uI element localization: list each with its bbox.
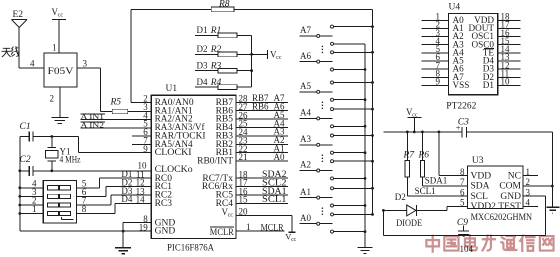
wire A6 switch bottom throw to bus A (334, 68, 367, 71)
resistor R1 with net D1 (195, 25, 252, 38)
switch S5 A4 (300, 108, 334, 128)
resistor R6 (418, 132, 430, 186)
pin 7 U1 stub wire (132, 143, 151, 145)
pin 22 U1 RB1 / net A1 (216, 143, 288, 158)
wire antenna to F05V pin 4 (19, 28, 44, 69)
resistor R8 (211, 0, 234, 12)
pin 23 U1 RB2 / net A2 (216, 135, 288, 150)
svg-text:C9: C9 (457, 218, 468, 228)
wire F05V pin 2 to ground (59, 87, 61, 117)
wire A2 switch bottom throw to bus A (334, 177, 367, 180)
capacitor C1 (20, 122, 79, 142)
pin 7 U3 SDA (460, 177, 490, 191)
svg-text:GND: GND (155, 227, 176, 237)
pin 7 U4 A6 (422, 60, 464, 73)
svg-text:A6: A6 (300, 51, 311, 61)
wire A7 switch bottom throw to bus A (334, 43, 365, 45)
wire A1 switch bottom throw to bus A (334, 204, 367, 207)
resistor R5 (110, 98, 128, 114)
wire R5 to U1 pin 3 (128, 111, 152, 113)
svg-text:DIODE: DIODE (396, 218, 422, 228)
svg-text:A7: A7 (300, 25, 311, 35)
svg-text:2: 2 (50, 94, 55, 104)
svg-text:A4: A4 (300, 108, 311, 118)
pin 1 U4 A0 (422, 12, 464, 25)
svg-text:MXC6202GHMN: MXC6202GHMN (471, 213, 533, 223)
pin 8 U4 A7 (422, 68, 464, 81)
svg-text:GND: GND (500, 192, 521, 202)
svg-text:C1: C1 (20, 122, 31, 132)
pin 4 RP1 (18, 178, 43, 189)
pin 20 U1 Vcc (222, 206, 293, 232)
pin 15 U4 OSC0 (472, 36, 521, 49)
pin 13 U1 RC2 (136, 186, 173, 200)
power Vcc tap at F05V pin 1 (52, 7, 67, 53)
diode D2 (382, 192, 447, 228)
switch S2 A1 (300, 187, 334, 215)
wire A3 switch top throw to bus B (334, 134, 374, 137)
wire C1 to U1 pin 9 CLOCKI (79, 137, 152, 153)
svg-text:MCLR: MCLR (261, 222, 284, 232)
resistor R2 with net D2 (195, 44, 268, 57)
pin 18 U4 VDD (474, 12, 520, 25)
pin 9 U4 VSS (422, 77, 470, 90)
switch S4 A3 (300, 134, 334, 162)
wire A0 switch bottom throw to bus A (334, 230, 367, 233)
svg-text:R6: R6 (418, 151, 430, 161)
power Vcc tap near U3 (406, 107, 422, 133)
pin 16 U4 OSC1 (472, 28, 521, 41)
pin 4 U4 A3 (422, 36, 464, 49)
svg-text:1: 1 (52, 43, 57, 53)
switch S7 A6 (300, 51, 334, 71)
wire U1 pin 2 to R8 (131, 9, 151, 102)
resistor R3 with net D3 (195, 60, 252, 73)
svg-text:SCL1: SCL1 (415, 186, 436, 196)
pin 9 U1 CLOCKI (143, 144, 191, 158)
pin 17 U4 DOUT (468, 20, 520, 33)
svg-text:F05V: F05V (48, 67, 74, 77)
pin 6 U3 SCL (460, 187, 488, 201)
wire A4 switch top throw to bus B (334, 108, 374, 111)
pin 28 U1 RB7 / net A7 (216, 93, 288, 108)
svg-text:SCL: SCL (471, 192, 489, 202)
svg-text:4 MHz: 4 MHz (60, 155, 81, 165)
pin 12 U4 D3 (483, 60, 521, 73)
pin 2 U3 COM (499, 177, 552, 191)
pin 5 U3 VDD2 (460, 198, 496, 212)
svg-text:CLOCKI: CLOCKI (155, 148, 192, 158)
capacitor C3 (456, 118, 469, 138)
power Vcc tap at U1 pin 20 (285, 231, 296, 243)
pin 8 U3 VDD (460, 167, 491, 181)
pin 3 U3 GND (500, 187, 545, 201)
pin 11 U4 D2 (483, 68, 521, 81)
wire R8 net to bus (131, 8, 373, 10)
wire bus joining R1-R4 (250, 35, 253, 87)
svg-text:cc: cc (228, 212, 234, 218)
svg-text:A3: A3 (300, 134, 311, 144)
svg-text:5: 5 (460, 198, 465, 208)
svg-text:TEST: TEST (498, 202, 521, 212)
wire A2 switch top throw to bus B (334, 160, 374, 163)
svg-text:C2: C2 (20, 155, 31, 165)
svg-text:D2: D2 (395, 192, 406, 202)
pin 18 U1 RC7/Tx / net SDA2 (202, 169, 288, 184)
wire Vcc rail to U3 pin 8 VDD (439, 132, 468, 176)
wire U3 GND pin to bottom rail (545, 196, 547, 235)
encoder U4 PT2262 (446, 3, 497, 112)
svg-text:A1: A1 (300, 187, 311, 197)
power Vcc tap on D2 row (268, 50, 282, 62)
pin 13 U4 D4 (483, 52, 521, 65)
pin 6 U4 A5 (422, 52, 464, 65)
ground below U1 (115, 248, 131, 254)
pin 7 RP1 / wire to U1 net D3 (76, 186, 151, 206)
svg-text:R5: R5 (110, 98, 122, 108)
watermark text 中国电力通信网 (426, 235, 553, 251)
wire bus A vertical to ground (364, 44, 366, 247)
svg-text:MCLR: MCLR (210, 228, 235, 238)
svg-text:cc: cc (291, 237, 297, 243)
pin 6 RP1 / wire to U1 net D2 (76, 177, 151, 197)
pin 21 U1 RB0/INT / net A0 (197, 152, 288, 167)
pin 7 U1 RA5/AN4 (143, 136, 193, 150)
pin 17 U1 RC6/Rx / net SCL2 (202, 177, 288, 192)
svg-text:R7: R7 (403, 151, 416, 161)
svg-text:A5: A5 (300, 81, 311, 91)
pin 10 U1 CLOCKo (138, 161, 193, 175)
pin 3 U4 A2 (422, 28, 464, 41)
pin 2 RP1 (18, 196, 43, 207)
svg-text:7: 7 (460, 177, 465, 187)
ground below switch bus (358, 248, 373, 254)
wire A1 switch top throw to bus B (334, 187, 374, 190)
svg-text:20: 20 (239, 206, 249, 216)
svg-text:104: 104 (460, 244, 474, 254)
svg-text:cc: cc (276, 55, 282, 61)
crystal Y1 4MHz (45, 137, 80, 171)
microcontroller U1 PIC16F876A (151, 84, 236, 254)
pin 2 U4 A1 (422, 20, 464, 33)
pin 15 U1 RC4 / net SCL1 (216, 194, 288, 209)
wire Vcc rail top (383, 131, 552, 134)
node A_IN1 (wire to U1 pin 4) (80, 112, 151, 121)
pin 6 U1 stub wire (132, 135, 151, 137)
pin 5 U1 RA3/AN3/Vf (143, 119, 205, 133)
wire right Vcc rail down to ground (551, 132, 554, 207)
pin 5 U4 A4 (422, 44, 464, 57)
wire A4 switch bottom throw to bus A (334, 125, 367, 128)
pin 1 U1 MCLR (210, 222, 285, 238)
wire A5 switch bottom throw to bus A (334, 98, 367, 101)
resistor R7 (403, 132, 416, 196)
svg-text:SCL1: SCL1 (262, 194, 287, 204)
svg-text:VDD: VDD (471, 171, 492, 181)
pin 25 U1 RB4 / net A4 (216, 118, 288, 133)
svg-text:COM: COM (499, 182, 521, 192)
wire SCL1 to U3 pin 6 (407, 186, 467, 196)
svg-text:SDA1: SDA1 (425, 176, 448, 186)
resistor network RP1 (43, 181, 76, 224)
switch S8 A7 (300, 25, 334, 53)
label 天线 (antenna) (2, 46, 19, 57)
svg-text:E2: E2 (13, 10, 24, 20)
wire SDA1 to U3 pin 7 (422, 176, 467, 186)
switch S1 A0 (300, 213, 334, 233)
svg-text:D3: D3 (197, 60, 208, 70)
svg-text:8: 8 (82, 204, 87, 214)
wire A6 switch top throw to bus B (334, 51, 374, 54)
wire A3 switch bottom throw to bus A (334, 151, 367, 154)
wire diode to U3 pin 5 VDD2 (447, 206, 467, 210)
capacitor C2 (20, 155, 152, 176)
pin 24 U1 RB3 / net A3 (216, 127, 288, 142)
pin 14 U4 TE (483, 44, 521, 57)
label MCLR net (261, 222, 284, 232)
svg-text:D1: D1 (197, 25, 208, 35)
svg-text:A2: A2 (300, 160, 311, 170)
svg-text:+: + (456, 122, 461, 132)
svg-text:D1: D1 (483, 80, 495, 90)
svg-text:D4: D4 (121, 194, 132, 204)
svg-text:PT2262: PT2262 (446, 102, 476, 112)
wire A7 switch top throw to bus B (334, 25, 374, 28)
accelerometer U3 MXC6202GHMN (468, 156, 533, 223)
receiver module F05V (30, 43, 88, 104)
pin 16 U1 RC5 / net SDA1 (216, 186, 288, 201)
pin 4 U3 TEST (498, 198, 538, 212)
svg-text:U1: U1 (166, 84, 178, 94)
pin 2 U1 RA0/AN0 (143, 94, 194, 108)
svg-text:8: 8 (460, 167, 465, 177)
wire bus B vertical (372, 9, 374, 214)
svg-text:cc: cc (58, 13, 64, 19)
pin 19 U1 GND (139, 222, 176, 236)
svg-text:U4: U4 (449, 3, 461, 13)
svg-text:VDD2: VDD2 (471, 202, 497, 212)
wire U1 pin 8 GND to ground (123, 223, 151, 248)
svg-text:6: 6 (460, 187, 465, 197)
capacitor C9 104 (457, 218, 474, 254)
svg-text:1: 1 (32, 204, 37, 214)
pin 3 U1 RA1/AN1 (143, 102, 193, 116)
resistor R4 with net D4 (195, 77, 252, 90)
svg-text:VSS: VSS (453, 80, 470, 90)
svg-text:D2: D2 (197, 44, 208, 54)
pin 5 RP1 / wire to U1 net D1 (76, 169, 151, 188)
svg-text:4: 4 (30, 59, 35, 69)
pin 6 U1 RAR/TOCKI (143, 127, 205, 141)
svg-text:D4: D4 (197, 77, 208, 87)
svg-text:A0: A0 (300, 213, 311, 223)
ground right of U3 (546, 207, 559, 213)
pin 1 RP1 (18, 204, 43, 215)
pin 26 U1 RB5 / net A5 (216, 110, 288, 125)
svg-text:SDA: SDA (471, 182, 490, 192)
pin 10 U4 D1 (483, 77, 521, 90)
pin 8 U1 GND (143, 214, 175, 228)
pin 14 U1 RC3 (136, 195, 173, 209)
svg-text:RB0/INT: RB0/INT (197, 157, 233, 167)
svg-text:U3: U3 (472, 156, 484, 166)
svg-text:RC3: RC3 (155, 199, 173, 209)
pin 8 RP1 / wire to U1 net D4 (76, 194, 151, 214)
svg-text:A0: A0 (274, 152, 285, 162)
antenna E2 (12, 10, 28, 28)
pin 4 U1 RA2/AN2 (143, 110, 193, 124)
node A_IN2 (wire to U1 pin 5) (80, 121, 151, 130)
wire A5 switch top throw to bus B (334, 81, 374, 84)
ground below F05V (51, 118, 68, 124)
switch S6 A5 (300, 81, 334, 109)
pin 3 RP1 (18, 187, 43, 198)
pin 12 U1 RC1 (136, 178, 173, 192)
wire bottom rail (383, 210, 545, 236)
svg-text:RB6: RB6 (252, 102, 269, 112)
svg-text:PIC16F876A: PIC16F876A (167, 243, 214, 253)
svg-text:NC: NC (508, 171, 521, 181)
switch S3 A2 (300, 160, 334, 180)
pin 11 U1 RC0 (136, 169, 172, 183)
pin 27 U1 RB6 / net A6 (216, 102, 288, 117)
wire F05V pin 3 to R5 (77, 68, 113, 111)
svg-text:3: 3 (83, 59, 88, 69)
pin 1 U3 NC (508, 167, 538, 181)
wire GND bus left (18, 137, 151, 233)
wire A0 switch top throw to bus B (334, 213, 374, 216)
